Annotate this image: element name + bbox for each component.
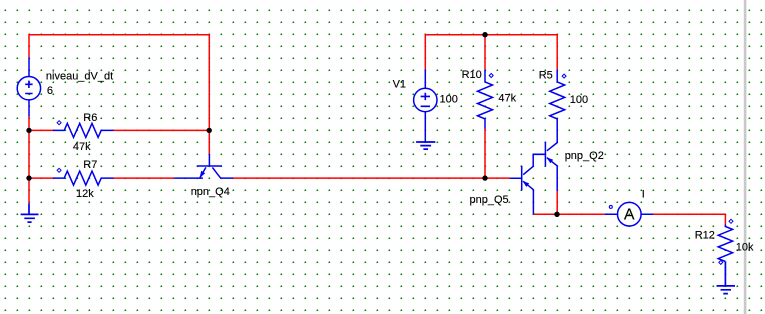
svg-text:pnp_Q2: pnp_Q2 (565, 150, 604, 162)
svg-text:A: A (624, 207, 635, 224)
svg-text:47k: 47k (73, 141, 91, 153)
svg-text:I: I (642, 189, 645, 201)
svg-text:npn_Q4: npn_Q4 (191, 186, 230, 198)
svg-text:niveau_dV_dt: niveau_dV_dt (46, 71, 113, 83)
svg-text:6: 6 (47, 85, 53, 97)
svg-text:10k: 10k (736, 242, 754, 254)
svg-text:R7: R7 (83, 159, 97, 171)
svg-text:V1: V1 (393, 79, 406, 91)
svg-text:R6: R6 (83, 112, 97, 124)
svg-text:pnp_Q5: pnp_Q5 (470, 194, 509, 206)
svg-text:R12: R12 (695, 229, 715, 241)
svg-text:47k: 47k (498, 93, 516, 105)
svg-text:100: 100 (570, 94, 588, 106)
svg-text:R10: R10 (462, 69, 482, 81)
svg-text:R5: R5 (539, 69, 553, 81)
svg-text:100: 100 (440, 94, 458, 106)
svg-text:12k: 12k (76, 188, 94, 200)
